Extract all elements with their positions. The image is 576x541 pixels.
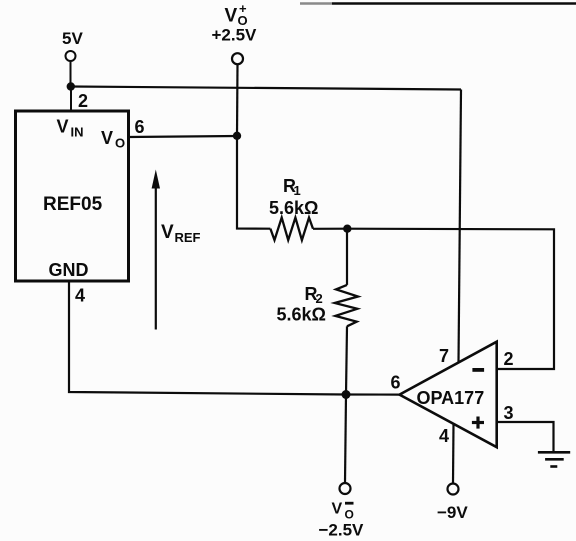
junction 5V node — [67, 82, 75, 90]
svg-text:O: O — [115, 136, 125, 151]
svg-text:7: 7 — [439, 346, 449, 366]
wire feedback to pin 2 — [347, 229, 554, 369]
wire R2 top lead — [346, 229, 348, 285]
wire pin 2 of REF05 — [70, 87, 72, 113]
svg-text:3: 3 — [504, 403, 514, 423]
wire R2 bottom lead — [346, 326, 347, 394]
op-amp minus input mark — [472, 368, 484, 372]
svg-text:V: V — [57, 117, 69, 137]
terminal V_O+ — [232, 53, 243, 64]
svg-text:V: V — [101, 128, 113, 148]
label V_O (pin 6) — [101, 128, 125, 151]
svg-text:−2.5V: −2.5V — [319, 521, 365, 540]
wire V_O node down to R1 — [237, 136, 270, 229]
top border line — [300, 2, 576, 4]
label V_IN — [57, 117, 84, 140]
svg-text:−9V: −9V — [437, 503, 468, 522]
wire pin 3 to ground — [498, 422, 554, 451]
svg-text:REF05: REF05 — [43, 194, 103, 215]
resistor R1 — [270, 218, 313, 241]
wire 5V rail to pin 7 — [71, 87, 461, 90]
wire ground bus (GND pin 4 to op-amp output) — [69, 281, 400, 395]
IC U1 REF05 box — [16, 111, 129, 281]
svg-text:IN: IN — [71, 125, 84, 140]
label R1 — [283, 176, 301, 198]
wire V_O- stem — [345, 395, 346, 483]
label V_REF — [161, 222, 201, 245]
svg-text:REF: REF — [175, 230, 201, 245]
svg-text:O: O — [345, 508, 354, 522]
junction output node — [342, 390, 351, 399]
wire V_O output — [129, 136, 238, 137]
label V_O- terminal — [332, 501, 354, 522]
svg-text:2: 2 — [504, 349, 514, 369]
wire V_O+ stem — [236, 65, 239, 136]
ground — [538, 452, 570, 466]
terminal V_O- — [340, 483, 351, 494]
svg-text:6: 6 — [391, 373, 401, 393]
label V_O+ terminal — [225, 1, 248, 28]
svg-text:OPA177: OPA177 — [417, 388, 485, 408]
svg-text:4: 4 — [75, 286, 85, 306]
svg-text:5V: 5V — [62, 29, 83, 48]
wire pin 4 (op-amp) to -9V — [452, 424, 455, 483]
svg-text:+2.5V: +2.5V — [212, 26, 258, 45]
wire R1 to node — [313, 228, 347, 230]
resistor R2 — [335, 285, 358, 326]
svg-text:5.6kΩ: 5.6kΩ — [277, 305, 326, 325]
svg-text:GND: GND — [49, 260, 89, 280]
op-amp plus input mark — [472, 417, 484, 429]
junction R1/R2/feedback node — [343, 225, 351, 233]
wire 5V stem — [70, 62, 72, 87]
terminal 5V — [66, 51, 76, 61]
svg-text:V: V — [161, 222, 174, 243]
svg-text:+: + — [239, 1, 247, 16]
wire pin 7 vertical — [459, 90, 462, 363]
svg-text:V: V — [225, 6, 238, 27]
svg-text:V: V — [332, 501, 343, 518]
svg-text:1: 1 — [294, 183, 301, 198]
label R2 — [305, 284, 323, 306]
terminal -9V — [448, 484, 459, 495]
op-amp U2 OPA177 triangle — [400, 342, 497, 448]
junction V_O node — [233, 132, 241, 140]
svg-text:5.6kΩ: 5.6kΩ — [269, 198, 318, 218]
svg-text:4: 4 — [439, 426, 449, 446]
svg-text:6: 6 — [135, 117, 145, 137]
arrow V_REF — [152, 170, 160, 330]
svg-text:2: 2 — [78, 91, 88, 111]
